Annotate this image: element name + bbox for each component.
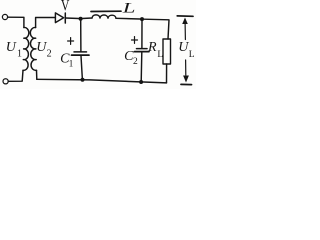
svg-text:L: L [189,50,195,60]
wire J1 to inductor [82,17,92,20]
terminal top-left [2,14,7,19]
label C1 [60,52,73,69]
label U2 [36,40,51,59]
UL top bar [177,15,193,17]
wire primary bottom to terminal [8,70,23,81]
resistor RL box [163,39,171,64]
inductor core bar [91,10,121,12]
label RL [147,40,163,60]
UL lower arrow [185,60,187,75]
label L [122,0,136,16]
resistor RL bottom lead [166,64,168,83]
plus sign C1 [68,38,74,45]
capacitor C1 top lead [80,21,82,52]
node J1 junction dot [79,17,83,21]
transformer primary winding U1 [23,27,29,70]
capacitor C2 bottom lead [140,52,143,81]
wire terminal to primary top [8,17,24,27]
svg-text:L: L [122,0,136,16]
diode V triangle [55,13,63,23]
svg-text:L: L [157,50,163,60]
terminal bottom-left [3,79,8,84]
capacitor C1 bottom lead [81,56,82,80]
UL bottom bar [181,83,192,85]
plus sign C2 [132,37,138,44]
svg-text:1: 1 [69,59,74,69]
wire secondary top to diode [36,18,56,28]
wire diode to node J1 [65,17,79,20]
capacitor C2 plates [137,48,148,50]
wire J2 to RL corner [144,19,169,39]
svg-text:2: 2 [133,57,138,67]
node C1 bottom junction dot [81,78,85,82]
wire secondary bottom corner [36,70,38,79]
svg-text:U: U [6,40,17,55]
capacitor C2 top lead [141,21,143,48]
diode cathode bar [64,13,66,23]
bottom wire [37,79,167,83]
svg-text:R: R [147,40,157,55]
svg-text:U: U [178,40,189,55]
wire inductor to node J2 [116,17,140,20]
svg-text:1: 1 [17,48,22,59]
label V [61,0,70,15]
label U1 [6,40,22,59]
node J2 junction dot [140,17,144,21]
svg-text:V: V [61,0,70,15]
node C2 bottom junction dot [139,80,143,84]
capacitor C1 plates [74,51,87,53]
inductor L winding [92,15,116,18]
label C2 [124,49,138,67]
svg-text:2: 2 [47,49,52,60]
label UL [178,40,195,60]
UL upper arrow [182,18,188,25]
transformer secondary winding U2 [30,27,36,70]
